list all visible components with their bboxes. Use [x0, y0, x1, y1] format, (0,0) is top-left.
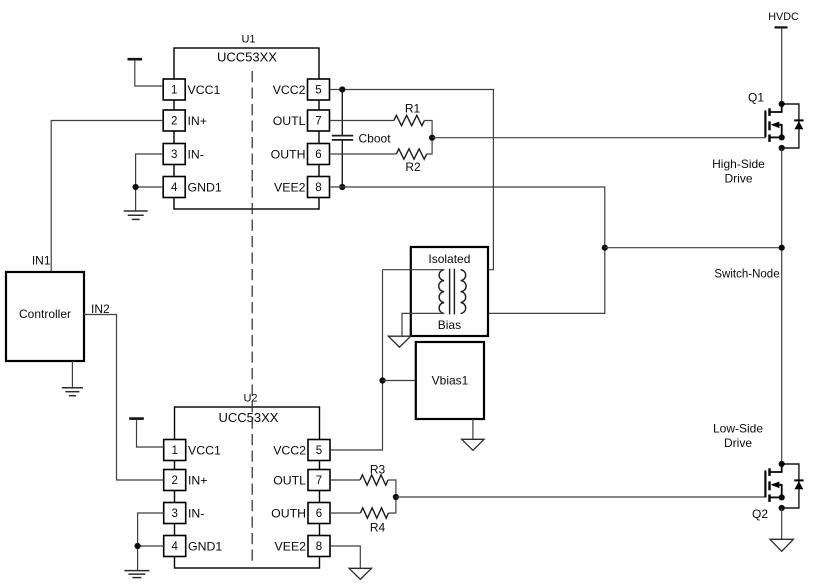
junction R1/R2 gate node [429, 135, 435, 141]
svg-text:8: 8 [315, 182, 321, 194]
pin 2 (IN+) of U2 [164, 470, 208, 491]
svg-text:U1: U1 [241, 34, 255, 46]
transistor Q2 (low-side MOSFET) [765, 461, 803, 511]
wire switch node horizontal [605, 247, 782, 249]
wire U2 OUTL (pin 7) to R3 [331, 479, 360, 481]
VCC1 supply bar above U1 [128, 58, 143, 61]
junction Vbias1 output node [379, 377, 385, 383]
svg-text:VEE2: VEE2 [274, 180, 306, 194]
svg-text:Q1: Q1 [748, 91, 764, 105]
wire U2 IN- (pin 3) down to ground net [138, 513, 164, 546]
left bias vertical wire (T1 primary to U2 VCC2) [331, 270, 383, 450]
pin 7 (OUTL) of U2 [273, 470, 330, 491]
junction VEE2 / switch-node [602, 245, 608, 251]
ground symbol below U1 [124, 210, 148, 212]
wire U1 OUTL (pin 7) to R1 [331, 120, 394, 122]
IC U2 body [175, 407, 320, 568]
pin 8 (VEE2) of U2 [275, 536, 330, 557]
svg-text:GND1: GND1 [188, 180, 222, 194]
pin 3 (IN-) of U1 [163, 144, 204, 165]
wire U2 VEE2 (pin 8) to ground [331, 546, 360, 568]
wire controller IN1 to U1 IN+ (pin 2) [51, 121, 163, 273]
svg-text:4: 4 [171, 541, 178, 553]
transformer T1 primary winding [439, 270, 444, 314]
transformer T1 core [450, 269, 455, 315]
ground symbol below controller [62, 387, 83, 389]
wire U1 IN- (pin 3) down to ground net [136, 154, 164, 187]
wire U1 VCC1 to supply bar [135, 60, 163, 86]
pin 5 (VCC2) of U2 [273, 440, 330, 461]
svg-text:VEE2: VEE2 [275, 539, 307, 553]
junction switch node at Q1/Q2 leg [779, 245, 785, 251]
wire gate node to Q2 gate [396, 496, 766, 498]
wire R3 to gate node [388, 480, 396, 497]
pin 4 (GND1) of U1 [163, 177, 222, 198]
junction U2 GND1/IN- node [135, 543, 141, 549]
transformer T1 (isolated bias) box [411, 247, 488, 336]
pin 2 (IN+) of U1 [163, 110, 207, 131]
svg-text:5: 5 [315, 85, 321, 97]
svg-text:3: 3 [171, 508, 177, 520]
svg-text:GND1: GND1 [188, 539, 222, 553]
pin 6 (OUTH) of U2 [271, 503, 330, 524]
svg-text:8: 8 [316, 541, 322, 553]
ground triangle below Vbias1 [462, 439, 484, 450]
wire T1 primary top to Vbias net [383, 269, 445, 271]
wire Vbias1 ground lead [472, 419, 474, 439]
svg-text:6: 6 [316, 508, 322, 520]
svg-text:OUTH: OUTH [271, 147, 306, 161]
junction VEE2/Cboot bottom [339, 184, 345, 190]
svg-text:OUTH: OUTH [271, 506, 306, 520]
wire U1 VCC2 (pin 5) to bias transformer secondary top [331, 90, 494, 270]
wire T1 primary bottom to ground [402, 313, 444, 336]
junction VCC2/Cboot top [339, 86, 345, 92]
ground symbol below U2 [124, 570, 149, 572]
svg-text:Bias: Bias [438, 318, 461, 332]
voltage source Vbias1 box [416, 342, 484, 419]
wire Cboot bottom lead [341, 141, 343, 188]
ground triangle below U2 VEE2 [349, 568, 371, 579]
pin 3 (IN-) of U2 [164, 503, 205, 524]
svg-text:Q2: Q2 [752, 507, 768, 521]
svg-text:U2: U2 [243, 393, 257, 405]
wire gate node to Q1 gate [432, 137, 765, 139]
wire R1 to gate node [424, 121, 432, 138]
svg-text:Drive: Drive [724, 436, 752, 450]
High-Side Drive label [712, 157, 765, 186]
svg-text:HVDC: HVDC [768, 11, 799, 23]
resistor R2 [396, 149, 426, 159]
VCC1 supply bar above U2 [129, 417, 144, 420]
svg-text:2: 2 [171, 475, 177, 487]
svg-text:Drive: Drive [724, 172, 752, 186]
wire R4 to gate node [389, 497, 396, 513]
ground triangle below Q2 [770, 539, 793, 551]
svg-text:UCC53XX: UCC53XX [217, 50, 277, 65]
svg-text:5: 5 [316, 445, 322, 457]
pin 7 (OUTL) of U1 [273, 110, 330, 131]
wire Vbias1 to bias net [383, 380, 416, 382]
svg-text:6: 6 [315, 149, 321, 161]
junction U1 GND1/IN- node [133, 184, 139, 190]
svg-text:Vbias1: Vbias1 [432, 374, 469, 388]
Low-Side Drive label [713, 422, 763, 451]
svg-text:Controller: Controller [19, 307, 71, 321]
IC U1 body [174, 48, 319, 209]
svg-text:R1: R1 [405, 102, 421, 116]
svg-text:Switch-Node: Switch-Node [714, 269, 779, 281]
wire controller ground lead [71, 361, 73, 388]
svg-text:Low-Side: Low-Side [713, 422, 763, 436]
wire HVDC to Q1 drain [781, 28, 783, 104]
wire U1 GND1 (pin 4) to ground [136, 187, 164, 211]
wire U1 OUTH (pin 6) to R2 [331, 153, 397, 155]
svg-text:OUTL: OUTL [273, 473, 306, 487]
wire controller IN2 to U2 IN+ (pin 2) [84, 315, 164, 481]
ground triangle below T1 primary [388, 336, 410, 347]
svg-text:OUTL: OUTL [273, 114, 306, 128]
wire U1 VEE2 (pin 8) to switch node [331, 187, 605, 313]
svg-text:High-Side: High-Side [712, 157, 765, 171]
svg-text:UCC53XX: UCC53XX [219, 410, 279, 425]
switch-node vertical wire (Q1 source to Q2 drain) [781, 148, 783, 464]
svg-text:VCC1: VCC1 [188, 83, 221, 97]
svg-text:1: 1 [171, 445, 177, 457]
wire R2 to gate node [427, 138, 432, 154]
isolation barrier dashed line [251, 71, 253, 562]
resistor R1 [394, 115, 425, 125]
svg-text:3: 3 [171, 149, 177, 161]
svg-text:R4: R4 [370, 521, 386, 535]
svg-text:Isolated: Isolated [428, 252, 470, 266]
pin 4 (GND1) of U2 [164, 536, 223, 557]
svg-text:IN-: IN- [188, 506, 204, 520]
capacitor Cboot [332, 136, 353, 140]
svg-text:R3: R3 [370, 463, 386, 477]
svg-text:VCC1: VCC1 [188, 443, 221, 457]
wire U2 VCC1 to supply bar [137, 419, 164, 447]
transistor Q1 (high-side MOSFET) [765, 101, 803, 151]
svg-text:IN-: IN- [188, 147, 204, 161]
svg-text:4: 4 [171, 182, 178, 194]
svg-text:VCC2: VCC2 [273, 443, 306, 457]
svg-text:R2: R2 [405, 160, 421, 174]
resistor R4 [360, 508, 388, 518]
junction R3/R4 gate node [393, 494, 399, 500]
svg-text:2: 2 [171, 116, 177, 128]
pin 1 (VCC1) of U2 [164, 440, 221, 461]
svg-text:VCC2: VCC2 [273, 83, 306, 97]
HVDC supply bar [775, 26, 788, 28]
pin 8 (VEE2) of U1 [274, 177, 329, 198]
wire Cboot top lead [341, 90, 343, 136]
controller box [6, 272, 84, 361]
svg-text:1: 1 [171, 85, 177, 97]
svg-text:7: 7 [315, 116, 321, 128]
svg-text:IN+: IN+ [188, 473, 207, 487]
pin 5 (VCC2) of U1 [273, 79, 330, 100]
pin 6 (OUTH) of U1 [271, 144, 330, 165]
pin 1 (VCC1) of U1 [163, 79, 220, 100]
svg-text:Cboot: Cboot [359, 131, 392, 145]
wire U2 GND1 (pin 4) to ground [138, 546, 164, 571]
resistor R3 [360, 475, 388, 485]
wire Q2 source to ground [781, 508, 783, 539]
svg-text:IN+: IN+ [188, 114, 207, 128]
wire U2 OUTH (pin 6) to R4 [331, 512, 360, 514]
svg-text:7: 7 [316, 475, 322, 487]
svg-text:IN1: IN1 [32, 254, 51, 268]
transformer T1 secondary winding [461, 270, 467, 314]
